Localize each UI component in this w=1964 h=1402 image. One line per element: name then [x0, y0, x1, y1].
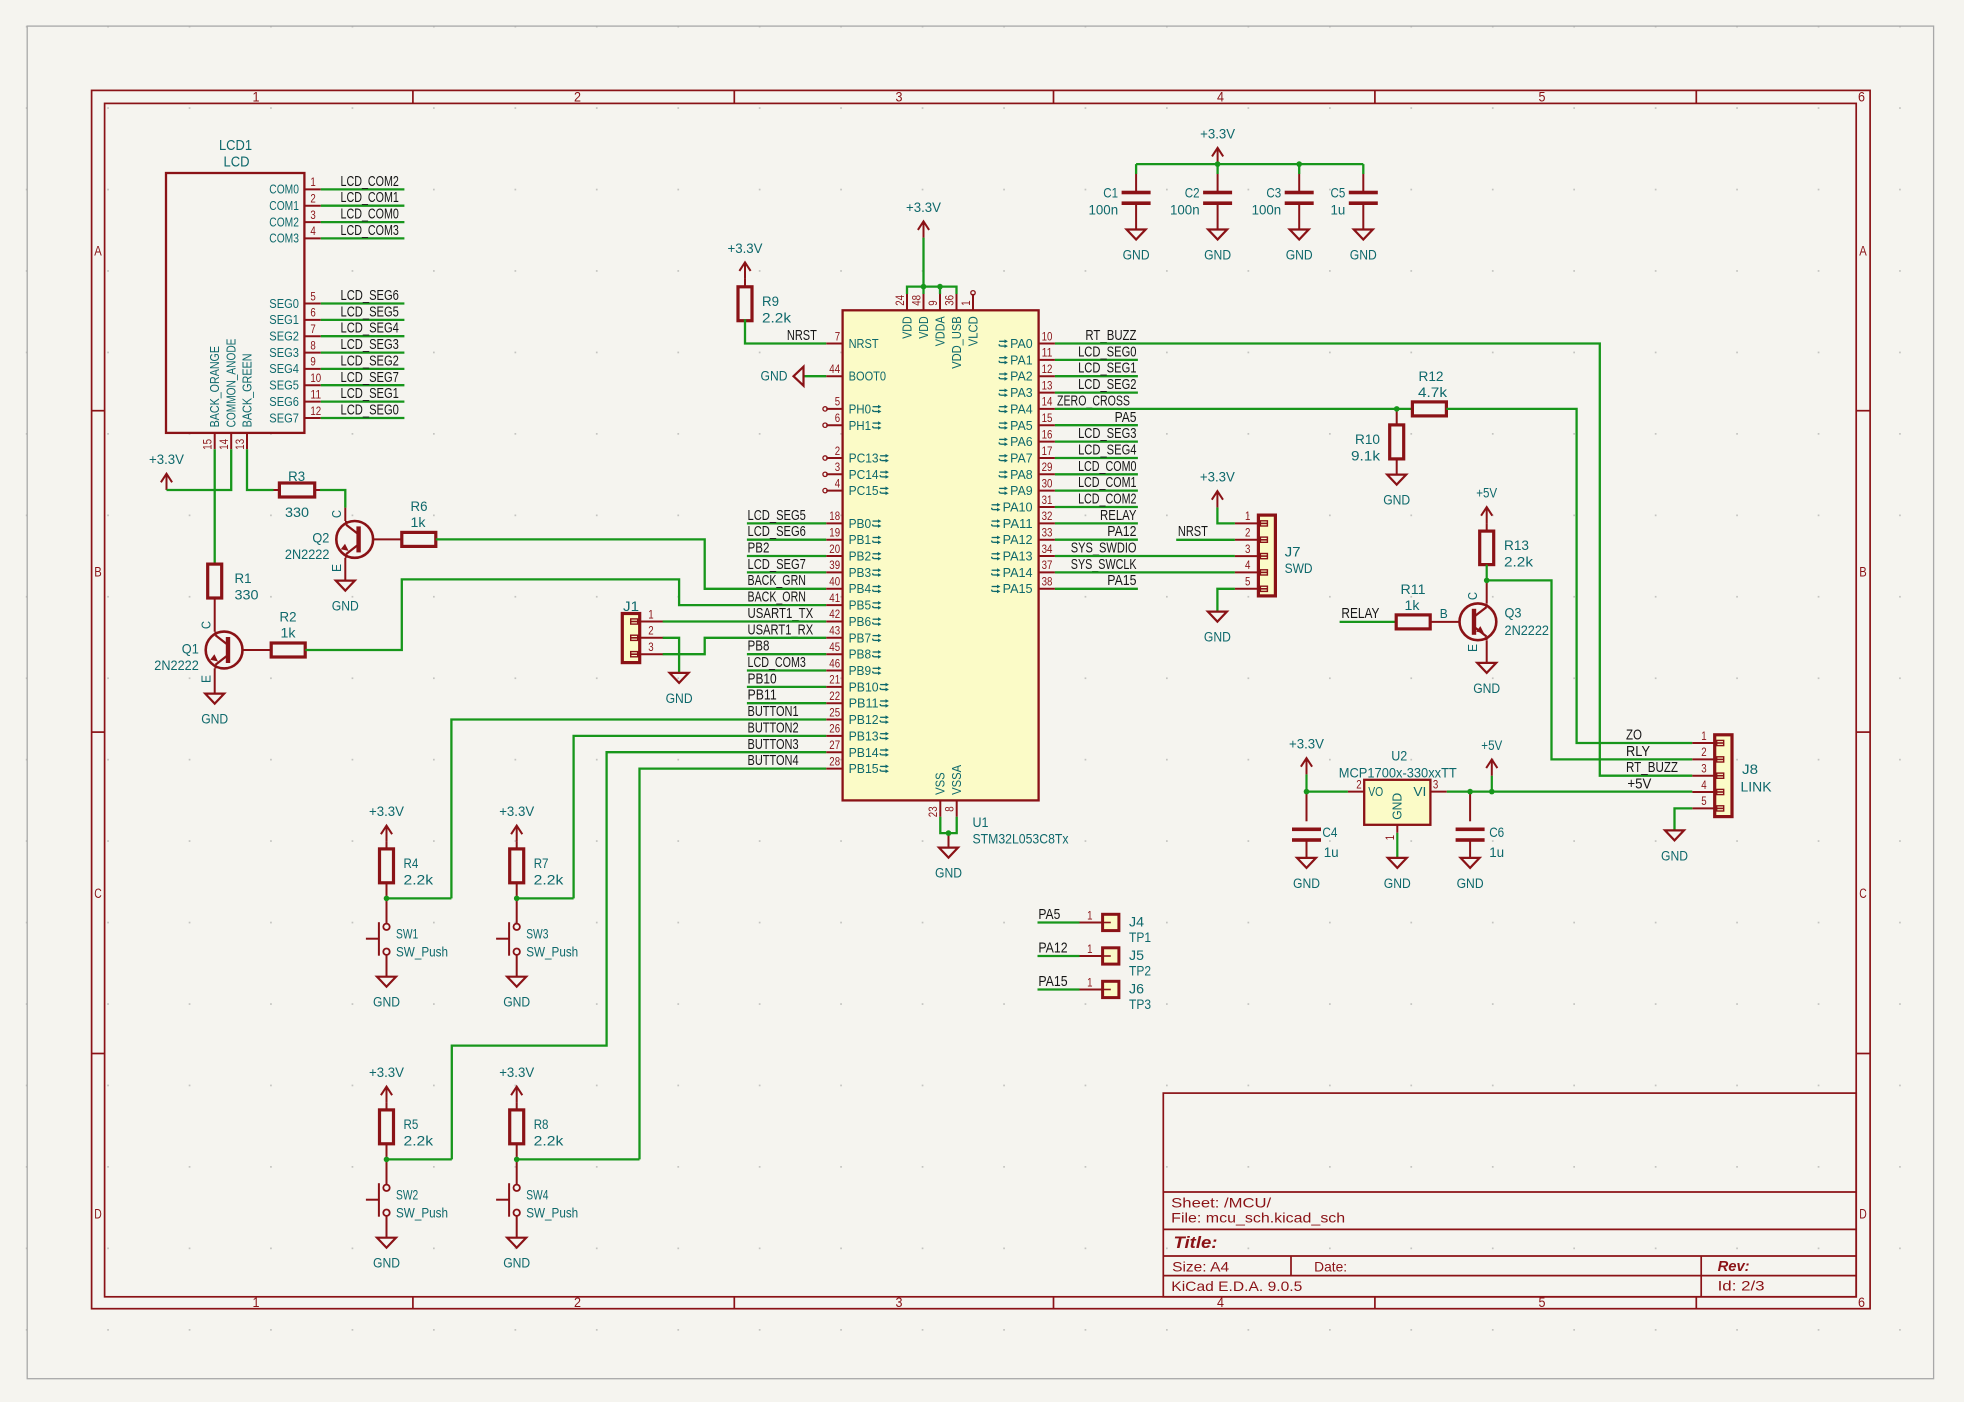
- wire net LCD_SEG0: [321, 417, 405, 419]
- wire BUTTON4 to U1: [640, 769, 827, 1160]
- U1 pin 13 PA3: [999, 378, 1055, 400]
- LCD1 pin 12 SEG7: [269, 404, 321, 426]
- svg-text:LCD_SEG2: LCD_SEG2: [341, 352, 399, 369]
- svg-text:PA2: PA2: [1010, 369, 1033, 384]
- svg-text:COM3: COM3: [269, 232, 299, 246]
- svg-text:15: 15: [201, 439, 215, 450]
- wire U2 GND: [1396, 833, 1398, 858]
- svg-text:PB15: PB15: [849, 761, 879, 776]
- resistor R10: [1351, 409, 1404, 464]
- wire SW4 to BUTTON: [517, 1158, 640, 1160]
- svg-text:J8: J8: [1742, 761, 1758, 777]
- svg-text:+3.3V: +3.3V: [499, 1065, 534, 1080]
- svg-text:31: 31: [1042, 493, 1053, 507]
- svg-text:Q3: Q3: [1505, 605, 1522, 621]
- svg-text:14: 14: [217, 439, 231, 450]
- U1 pin 31 PA10: [992, 493, 1055, 515]
- svg-text:TP3: TP3: [1129, 996, 1151, 1012]
- U1 pin 16 PA6: [999, 427, 1055, 449]
- svg-text:D: D: [1859, 1207, 1867, 1222]
- svg-text:PA1: PA1: [1010, 352, 1033, 367]
- net label LCD_SEG6: [748, 523, 806, 540]
- LCD1 pin 8 SEG3: [269, 338, 321, 360]
- svg-text:48: 48: [909, 295, 923, 306]
- net label +5V (J8): [1627, 776, 1651, 793]
- svg-text:+3.3V: +3.3V: [906, 200, 941, 215]
- svg-text:12: 12: [1042, 362, 1053, 376]
- junction SW3: [514, 896, 520, 902]
- svg-text:+5V: +5V: [1476, 486, 1497, 501]
- ground GND (Q3): [1473, 663, 1500, 696]
- svg-text:GND: GND: [1286, 248, 1313, 263]
- U1 pin 1 VLCD: [959, 291, 981, 347]
- svg-text:J5: J5: [1129, 947, 1144, 963]
- svg-text:GND: GND: [373, 1256, 400, 1271]
- net label BUTTON1: [748, 703, 799, 720]
- U1 pin 40 PB4: [826, 575, 881, 597]
- resistor R8: [510, 1103, 565, 1160]
- svg-text:R2: R2: [280, 609, 297, 625]
- net label NRST: [787, 327, 817, 344]
- svg-text:NRST: NRST: [1178, 523, 1208, 540]
- svg-text:1k: 1k: [1405, 597, 1421, 613]
- svg-text:14: 14: [1042, 395, 1053, 409]
- svg-text:10: 10: [310, 371, 321, 385]
- svg-text:+3.3V: +3.3V: [149, 452, 184, 467]
- svg-text:PC13: PC13: [849, 451, 879, 466]
- svg-text:2N2222: 2N2222: [154, 657, 199, 673]
- svg-text:BUTTON3: BUTTON3: [748, 736, 799, 753]
- svg-text:GND: GND: [1457, 876, 1484, 891]
- svg-text:USART1_TX: USART1_TX: [748, 605, 814, 622]
- wire USART1_RX J1 pin3 to U1: [663, 638, 827, 654]
- svg-text:File: mcu_sch.kicad_sch: File: mcu_sch.kicad_sch: [1171, 1210, 1345, 1226]
- svg-text:LCD_SEG6: LCD_SEG6: [341, 287, 399, 304]
- svg-text:2: 2: [1245, 526, 1251, 540]
- wire +3.3V to VDD: [922, 238, 924, 287]
- svg-text:SW_Push: SW_Push: [526, 1205, 578, 1221]
- power +3.3V (R5): [369, 1065, 404, 1103]
- svg-text:PC15: PC15: [849, 483, 879, 498]
- U1 pin 44 BOOT0: [826, 362, 886, 384]
- svg-text:LCD_COM3: LCD_COM3: [748, 654, 806, 671]
- net label PA15 (J6): [1038, 973, 1067, 990]
- svg-text:43: 43: [829, 624, 840, 638]
- svg-text:2.2k: 2.2k: [404, 872, 435, 888]
- svg-text:28: 28: [829, 754, 840, 768]
- net label LCD_COM2: [341, 173, 399, 190]
- svg-text:PB6: PB6: [849, 614, 872, 629]
- junction Q3 collector: [1484, 578, 1490, 584]
- svg-text:11: 11: [1042, 346, 1053, 360]
- U1 pin 11 PA1: [999, 346, 1055, 368]
- ground GND (U2): [1384, 858, 1411, 891]
- switch SW3: [496, 898, 578, 976]
- svg-text:PA12: PA12: [1038, 940, 1067, 957]
- svg-text:VDD_USB: VDD_USB: [949, 316, 964, 369]
- svg-text:GND: GND: [503, 1256, 530, 1271]
- wire net LCD_SEG1: [321, 400, 405, 402]
- svg-text:LCD_SEG5: LCD_SEG5: [341, 303, 399, 320]
- U1 pin 8 VSSA: [943, 765, 965, 817]
- svg-text:ZERO_CROSS: ZERO_CROSS: [1057, 392, 1130, 409]
- wire Q1 base to R2: [243, 649, 272, 651]
- wire +3.3V to J7 pin1: [1217, 507, 1235, 523]
- svg-text:NRST: NRST: [849, 336, 879, 351]
- svg-text:PB2: PB2: [849, 549, 872, 564]
- svg-text:J4: J4: [1129, 914, 1144, 930]
- U2 pin 2 VO: [1348, 777, 1383, 799]
- svg-text:GND: GND: [373, 995, 400, 1010]
- svg-text:PB9: PB9: [849, 663, 872, 678]
- resistor R9: [738, 279, 792, 326]
- wire net LCD_SEG2: [321, 368, 405, 370]
- net label LCD_COM1: [1078, 474, 1136, 491]
- wire net PB11: [747, 702, 826, 704]
- svg-text:C2: C2: [1185, 185, 1200, 201]
- U1 pin 27 PB14: [826, 738, 889, 760]
- net label PA15: [1107, 572, 1136, 589]
- wire R10 to GND: [1396, 459, 1398, 475]
- svg-text:BUTTON2: BUTTON2: [748, 719, 799, 736]
- svg-text:SWD: SWD: [1285, 560, 1313, 576]
- svg-text:J1: J1: [623, 598, 639, 614]
- power +3.3V (U1): [906, 200, 941, 238]
- svg-text:PB12: PB12: [849, 712, 879, 727]
- wire net PA12: [1055, 539, 1138, 541]
- svg-text:RT_BUZZ: RT_BUZZ: [1085, 327, 1136, 344]
- svg-text:PA12: PA12: [1003, 532, 1033, 547]
- svg-text:R10: R10: [1355, 431, 1380, 447]
- U1 pin 36 VDD_USB: [942, 294, 964, 369]
- LCD1 pin 5 SEG0: [269, 289, 321, 311]
- svg-text:37: 37: [1042, 558, 1053, 572]
- svg-text:COMMON_ANODE: COMMON_ANODE: [225, 339, 239, 428]
- U1 pin 17 PA7: [999, 444, 1055, 466]
- capacitor C2: [1170, 174, 1232, 230]
- svg-text:100n: 100n: [1170, 202, 1200, 218]
- svg-text:STM32L053C8Tx: STM32L053C8Tx: [973, 831, 1069, 847]
- net label LCD_SEG4: [1078, 442, 1136, 459]
- net label NRST (J7): [1178, 523, 1208, 540]
- svg-text:9.1k: 9.1k: [1351, 447, 1381, 463]
- svg-text:R9: R9: [762, 293, 779, 309]
- capacitor C6: [1456, 792, 1505, 860]
- svg-text:TP2: TP2: [1129, 963, 1151, 979]
- ground GND (SW3): [503, 977, 530, 1010]
- svg-text:1u: 1u: [1324, 844, 1339, 860]
- svg-text:PB2: PB2: [748, 540, 770, 557]
- svg-text:SEG5: SEG5: [269, 379, 299, 393]
- U1 pin 2 PC13: [823, 444, 889, 466]
- wire Q1 emitter: [214, 668, 216, 693]
- svg-text:R8: R8: [534, 1116, 549, 1132]
- svg-text:PB11: PB11: [849, 696, 879, 711]
- svg-text:LCD_SEG3: LCD_SEG3: [1078, 425, 1136, 442]
- wire RELAY label wire: [1340, 621, 1397, 623]
- svg-text:PA14: PA14: [1003, 565, 1033, 580]
- junction SW4: [514, 1157, 520, 1163]
- svg-text:VLCD: VLCD: [965, 316, 980, 346]
- svg-text:SEG3: SEG3: [269, 346, 299, 360]
- wire net LCD_COM2: [321, 188, 405, 190]
- net label SYS_SWDIO: [1071, 540, 1137, 557]
- svg-text:C1: C1: [1103, 185, 1118, 201]
- U1 pin 34 PA13: [992, 542, 1055, 564]
- resistor R6: [402, 498, 436, 547]
- svg-text:LCD_SEG0: LCD_SEG0: [1078, 343, 1136, 360]
- svg-text:B: B: [1440, 607, 1448, 621]
- U1 pin 4 PC15: [823, 476, 889, 498]
- svg-text:PB0: PB0: [849, 516, 872, 531]
- svg-text:C6: C6: [1489, 824, 1504, 840]
- wire net LCD_SEG5: [747, 522, 826, 524]
- U1 pin 39 PB3: [826, 558, 881, 580]
- svg-text:36: 36: [942, 295, 956, 306]
- junction cap rail C3: [1296, 161, 1302, 167]
- net label USART1_TX: [748, 605, 814, 622]
- svg-text:PC14: PC14: [849, 467, 879, 482]
- MCU U1 body: [843, 310, 1069, 846]
- svg-text:LCD_SEG5: LCD_SEG5: [748, 507, 806, 524]
- svg-text:PA15: PA15: [1003, 581, 1033, 596]
- svg-text:2: 2: [1356, 777, 1362, 791]
- net label LCD_COM2: [1078, 491, 1136, 508]
- net label BACK_GRN: [748, 572, 806, 589]
- regulator U2 body: [1339, 748, 1457, 825]
- svg-text:PB11: PB11: [748, 687, 777, 704]
- U2 pin 3 VI: [1413, 777, 1446, 799]
- junction C4: [1304, 789, 1310, 795]
- svg-text:20: 20: [829, 542, 840, 556]
- svg-text:LCD_SEG6: LCD_SEG6: [748, 523, 806, 540]
- svg-text:U1: U1: [973, 814, 989, 830]
- net label LCD_SEG5: [748, 507, 806, 524]
- net label PA5 (J4): [1038, 906, 1060, 923]
- U1 pin 23 VSS: [926, 772, 948, 817]
- svg-text:BACK_GRN: BACK_GRN: [748, 572, 806, 589]
- svg-text:A: A: [1859, 244, 1867, 259]
- wire LCD pin15 to R1: [214, 449, 216, 564]
- svg-text:C: C: [200, 621, 214, 629]
- LCD1 pin 13 BACK_GREEN: [233, 353, 255, 449]
- svg-text:+3.3V: +3.3V: [1200, 126, 1235, 141]
- svg-text:LCD_SEG0: LCD_SEG0: [341, 402, 399, 419]
- ground GND (SW2): [373, 1238, 400, 1271]
- resistor R5: [380, 1103, 435, 1160]
- wire net LCD_SEG6: [321, 302, 405, 304]
- net label BUTTON2: [748, 719, 799, 736]
- svg-text:COM0: COM0: [269, 183, 299, 197]
- svg-text:PB13: PB13: [849, 728, 879, 743]
- svg-text:R13: R13: [1504, 537, 1529, 553]
- switch SW1: [366, 898, 448, 976]
- svg-text:GND: GND: [503, 995, 530, 1010]
- wire net LCD_SEG7: [321, 384, 405, 386]
- wire +3.3V C4 to U2 VO: [1307, 790, 1348, 792]
- svg-text:2N2222: 2N2222: [1505, 622, 1550, 638]
- svg-text:29: 29: [1042, 460, 1053, 474]
- net label LCD_SEG7: [748, 556, 806, 573]
- svg-text:2.2k: 2.2k: [404, 1133, 435, 1149]
- wire J1 pin2 to GND: [663, 638, 679, 673]
- net label RT_BUZZ: [1085, 327, 1136, 344]
- svg-text:R5: R5: [404, 1116, 419, 1132]
- svg-text:LCD_SEG4: LCD_SEG4: [341, 320, 399, 337]
- svg-text:4: 4: [310, 224, 316, 238]
- svg-text:LCD_COM2: LCD_COM2: [1078, 491, 1136, 508]
- svg-text:100n: 100n: [1252, 202, 1282, 218]
- svg-text:PH1: PH1: [849, 418, 872, 433]
- wire RLY Q3 to J8 pin2: [1487, 580, 1693, 759]
- svg-text:U2: U2: [1391, 748, 1407, 764]
- svg-text:5: 5: [1539, 90, 1546, 105]
- svg-text:VI: VI: [1413, 784, 1426, 799]
- svg-text:C3: C3: [1266, 185, 1281, 201]
- net label PB11: [748, 687, 777, 704]
- U1 pin 46 PB9: [826, 656, 881, 678]
- resistor R4: [380, 842, 435, 899]
- svg-text:1: 1: [253, 1295, 260, 1310]
- svg-text:17: 17: [1042, 444, 1053, 458]
- svg-text:11: 11: [310, 387, 321, 401]
- svg-text:33: 33: [1042, 526, 1053, 540]
- resistor R12: [1412, 368, 1448, 416]
- svg-text:13: 13: [1042, 378, 1053, 392]
- svg-text:LCD_COM1: LCD_COM1: [1078, 474, 1136, 491]
- svg-text:PA5: PA5: [1115, 409, 1137, 426]
- U1 pin 26 PB13: [826, 722, 889, 744]
- svg-text:7: 7: [835, 329, 841, 343]
- svg-text:B: B: [94, 565, 102, 580]
- svg-text:GND: GND: [1383, 493, 1410, 508]
- svg-text:GND: GND: [1384, 876, 1411, 891]
- U1 pin 5 PH0: [823, 395, 882, 417]
- svg-text:GND: GND: [761, 369, 788, 384]
- wire BACK_GRN from R6 to U1: [436, 539, 826, 588]
- wire NRST to J7 pin2: [1176, 539, 1235, 541]
- net label ZO: [1626, 727, 1642, 744]
- wire net PB2: [747, 555, 826, 557]
- svg-text:C: C: [330, 510, 344, 518]
- svg-text:GND: GND: [1293, 876, 1320, 891]
- svg-text:BOOT0: BOOT0: [849, 369, 887, 384]
- U2 pin 1 GND: [1383, 793, 1405, 840]
- U1 pin 12 PA2: [999, 362, 1055, 384]
- resistor R7: [510, 842, 565, 899]
- svg-text:6: 6: [835, 411, 841, 425]
- svg-text:LCD_COM1: LCD_COM1: [341, 189, 399, 206]
- net label LCD_COM0: [1078, 458, 1136, 475]
- LCD1 pin 2 COM1: [269, 192, 321, 214]
- svg-text:J6: J6: [1129, 981, 1144, 997]
- wire VDD rail: [907, 287, 957, 294]
- wire R1 to Q1 collector: [214, 597, 216, 632]
- svg-text:6: 6: [1858, 1295, 1865, 1310]
- U1 pin 20 PB2: [826, 542, 881, 564]
- wire ZO R12 to J8 pin1: [1446, 409, 1692, 743]
- power +3.3V (cap rail): [1200, 126, 1235, 164]
- wire net PA12 (testpoint): [1038, 955, 1080, 957]
- svg-text:R12: R12: [1419, 368, 1444, 384]
- svg-text:7: 7: [310, 322, 316, 336]
- svg-text:4: 4: [835, 476, 841, 490]
- U1 pin 9 VDDA: [926, 294, 948, 346]
- svg-text:18: 18: [829, 509, 840, 523]
- U1 pin 37 PA14: [992, 558, 1055, 580]
- wire J8 pin5 to GND: [1675, 808, 1693, 830]
- svg-text:COM2: COM2: [269, 215, 299, 229]
- svg-text:LINK: LINK: [1741, 779, 1773, 795]
- svg-text:1k: 1k: [411, 514, 427, 530]
- wire net LCD_SEG1: [1055, 375, 1138, 377]
- wire net LCD_SEG3: [321, 351, 405, 353]
- svg-text:LCD_COM0: LCD_COM0: [341, 206, 399, 223]
- wire net PB10: [747, 686, 826, 688]
- svg-text:32: 32: [1042, 509, 1053, 523]
- svg-text:GND: GND: [1204, 630, 1231, 645]
- wire net LCD_SEG6: [747, 539, 826, 541]
- svg-text:PA6: PA6: [1010, 434, 1033, 449]
- svg-text:KiCad E.D.A. 9.0.5: KiCad E.D.A. 9.0.5: [1171, 1278, 1302, 1294]
- U1 pin 30 PA9: [999, 476, 1055, 498]
- svg-text:5: 5: [1245, 575, 1251, 589]
- svg-text:27: 27: [829, 738, 840, 752]
- svg-text:4: 4: [1245, 558, 1251, 572]
- svg-text:1k: 1k: [281, 625, 297, 641]
- power +3.3V (R8): [499, 1065, 534, 1103]
- connector J7 SWD: [1235, 509, 1313, 596]
- junction C6: [1467, 789, 1473, 795]
- svg-text:LCD_SEG7: LCD_SEG7: [748, 556, 806, 573]
- svg-text:Id: 2/3: Id: 2/3: [1718, 1277, 1765, 1293]
- svg-text:R3: R3: [288, 468, 305, 484]
- power +3.3V (R4): [369, 804, 404, 842]
- svg-text:E: E: [1466, 644, 1480, 652]
- wire net LCD_SEG2: [1055, 391, 1138, 393]
- svg-text:TP1: TP1: [1129, 929, 1151, 945]
- svg-text:3: 3: [310, 208, 316, 222]
- svg-text:LCD_COM0: LCD_COM0: [1078, 458, 1136, 475]
- net label BUTTON3: [748, 736, 799, 753]
- resistor R1: [208, 564, 259, 603]
- svg-text:1: 1: [310, 175, 316, 189]
- svg-text:9: 9: [310, 355, 316, 369]
- U1 pin 21 PB10: [826, 673, 889, 695]
- testpoint J4 TP1: [1080, 908, 1152, 945]
- svg-text:PB5: PB5: [849, 598, 872, 613]
- ground GND (C6): [1457, 858, 1484, 891]
- net label RLY: [1626, 743, 1650, 760]
- resistor R11: [1396, 581, 1430, 629]
- svg-text:SEG2: SEG2: [269, 330, 299, 344]
- ground GND (J7): [1204, 612, 1231, 645]
- wire net LCD_COM2: [1055, 506, 1138, 508]
- wire BUTTON1 to U1: [451, 720, 826, 899]
- net label PB2: [748, 540, 770, 557]
- svg-text:6: 6: [1858, 90, 1865, 105]
- power +3.3V (R9): [728, 241, 763, 279]
- wire USART1_TX J1 pin1 to U1: [663, 620, 827, 622]
- svg-text:COM1: COM1: [269, 199, 299, 213]
- U1 pin 33 PA12: [992, 526, 1055, 548]
- svg-text:VO: VO: [1368, 784, 1383, 799]
- net label LCD_SEG1: [1078, 360, 1136, 377]
- svg-text:R6: R6: [411, 498, 428, 514]
- wire net LCD_COM0: [1055, 473, 1138, 475]
- power +3.3V (LCD backlight anode): [149, 452, 184, 490]
- svg-text:GND: GND: [332, 599, 359, 614]
